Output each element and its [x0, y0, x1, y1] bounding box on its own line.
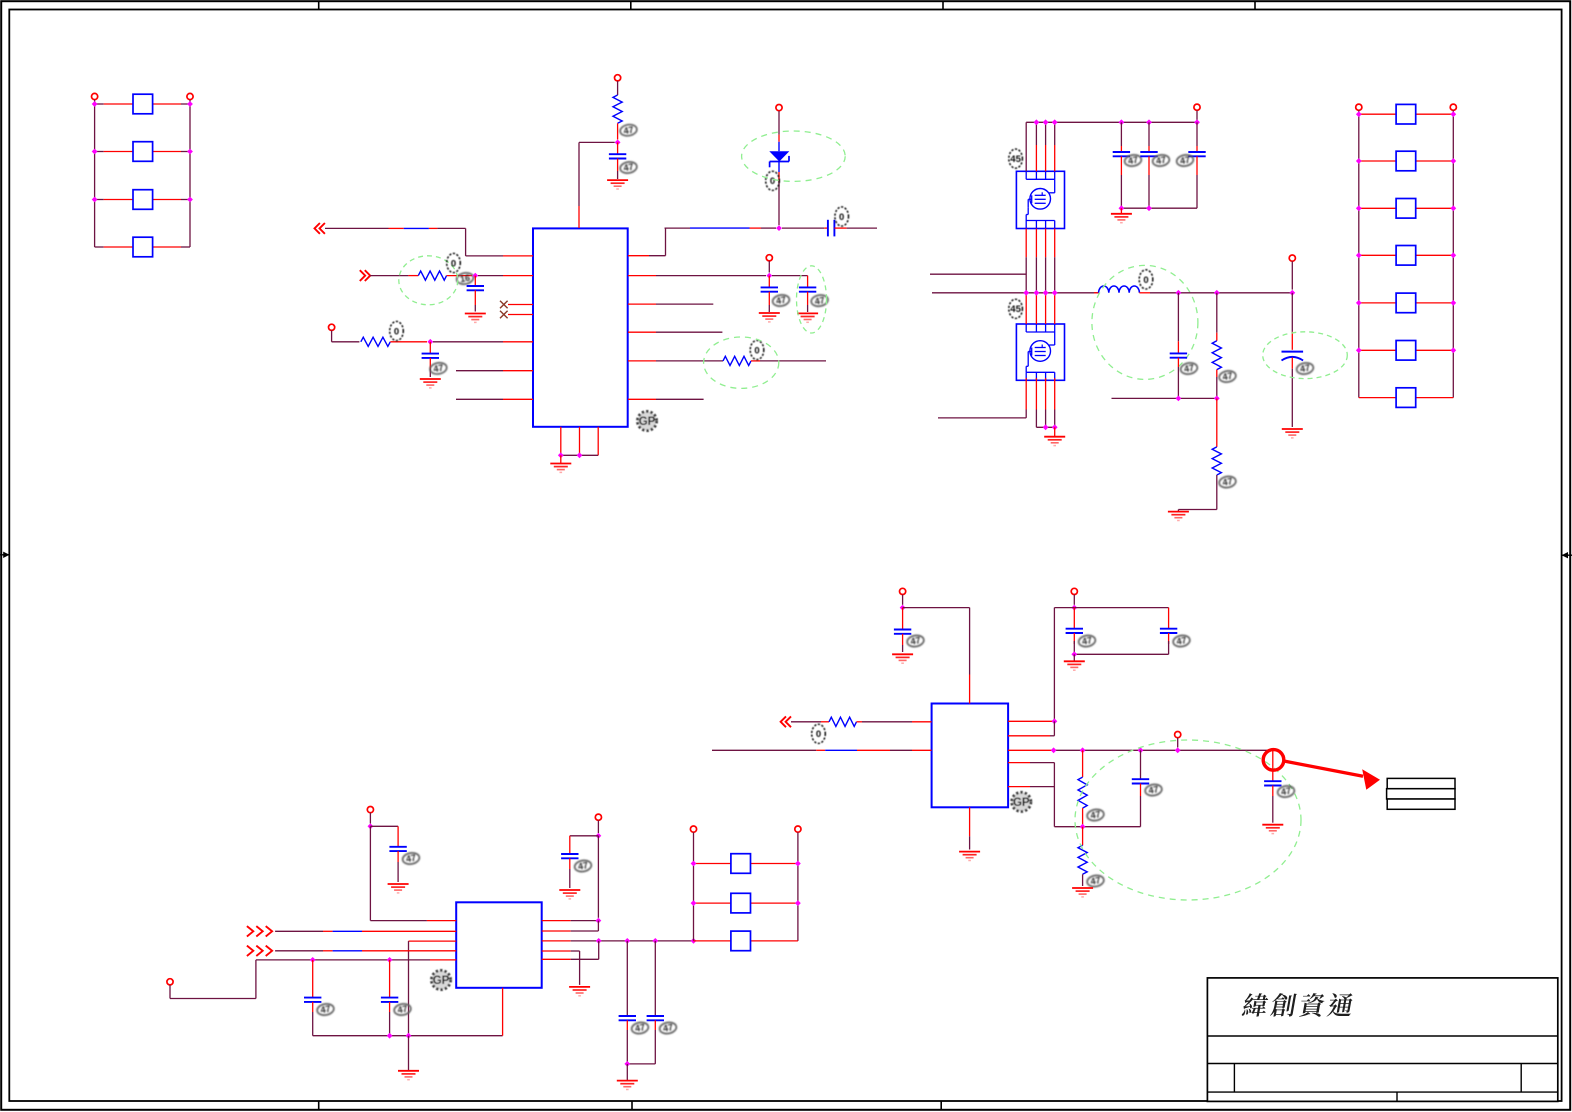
- title block frame: [1207, 978, 1557, 1102]
- junction gnd rail C7: [1119, 205, 1125, 211]
- inductor L1: [1094, 286, 1178, 293]
- ground C3: [420, 379, 441, 388]
- wire U3 pin R5: [1008, 786, 1054, 788]
- label D1 refdes: [766, 171, 780, 190]
- svg-text:GP: GP: [433, 975, 450, 987]
- wire R2 to U1: [478, 275, 533, 277]
- junction SW 3: [1043, 290, 1049, 296]
- junction out C11: [1289, 290, 1295, 296]
- wire U3 pin L2 long net: [712, 749, 932, 751]
- resistor RN3-2: [694, 893, 798, 913]
- wire U2 pin L4: [275, 950, 456, 952]
- label C11 value: [1296, 362, 1314, 376]
- resistor RN2-2: [1359, 151, 1454, 171]
- op-amp U3: [932, 704, 1009, 808]
- capacitor C9: [1188, 122, 1205, 208]
- wire U2 pin L5: [170, 960, 456, 999]
- resistor RN2-4: [1359, 246, 1454, 266]
- op-amp U2 regulator: [456, 902, 542, 988]
- resistor RN1-2: [95, 142, 190, 162]
- ground C12: [388, 884, 409, 893]
- annotation arrow to probe pads: [1283, 761, 1380, 790]
- svg-text:47: 47: [1176, 635, 1188, 647]
- wire U3 pin R2 loop: [1008, 721, 1054, 736]
- junction VIN C7: [1119, 119, 1125, 125]
- label C1 value: [619, 161, 637, 175]
- capacitor C10: [1170, 293, 1187, 399]
- junction U3 vcc2: [1071, 605, 1077, 611]
- no-connect pin X1: [500, 301, 533, 309]
- capacitor C14: [381, 960, 398, 1036]
- wire RN1 right rail: [189, 100, 191, 247]
- label C18 value: [906, 634, 924, 648]
- svg-text:0: 0: [839, 212, 844, 223]
- wire U1 right pin 4: [628, 331, 722, 333]
- junction U1 gnd 2: [577, 452, 583, 458]
- ground C19: [1064, 654, 1085, 670]
- resistor R2: [370, 271, 472, 280]
- svg-text:0: 0: [394, 326, 399, 337]
- wire vcc1 to U2 pin L1: [370, 826, 456, 920]
- junction U2 R1: [596, 918, 602, 924]
- junction R8 bottom: [1080, 824, 1086, 830]
- border zone tick bottom 1: [318, 1101, 320, 1110]
- junction R3 b: [624, 938, 630, 944]
- probe pads stack: [1387, 778, 1455, 809]
- svg-text:47: 47: [623, 162, 635, 174]
- svg-text:47: 47: [1183, 363, 1195, 375]
- wire gate drive in: [930, 273, 1026, 275]
- border zone tick bottom 2: [631, 1101, 633, 1110]
- label R2 value: [456, 272, 474, 286]
- wire U3 pin R4: [1008, 763, 1140, 827]
- label C3 value: [429, 362, 447, 376]
- label U2 GP stamp: [431, 970, 450, 989]
- border center arrow left: [0, 552, 10, 558]
- resistor RN3-3: [694, 931, 798, 951]
- capacitor C1: [609, 142, 626, 179]
- ground Q2: [1044, 427, 1065, 445]
- junction rail C10: [1176, 396, 1182, 402]
- svg-text:47: 47: [1280, 786, 1292, 798]
- terminal RN2-A: [1356, 104, 1362, 110]
- highlight ellipse L1: [1092, 265, 1198, 379]
- svg-text:47: 47: [1090, 875, 1102, 887]
- wire U1 left pin 6: [456, 370, 533, 372]
- ground C5: [759, 313, 780, 322]
- off-page arrow U2 IN2: [247, 946, 272, 956]
- terminal VCC U3a: [900, 588, 906, 604]
- resistor RN2-7: [1359, 388, 1454, 408]
- transistor Q2 (dual MOSFET block): [1016, 324, 1064, 380]
- terminal VCC R1: [615, 75, 621, 81]
- wire U2 bottom rail: [313, 988, 503, 1036]
- junction RN1 right row 3: [187, 197, 193, 203]
- off-page arrow U3 IN: [781, 716, 791, 727]
- terminal J3: [167, 979, 173, 985]
- wire U3 ground pin: [969, 807, 971, 849]
- svg-text:47: 47: [662, 1022, 674, 1034]
- wire RN2 right rail: [1452, 110, 1454, 397]
- junction C14 top: [387, 957, 393, 963]
- border zone tick top 2: [630, 1, 632, 9]
- border zone tick top 4: [1254, 1, 1256, 9]
- label U3 GP stamp: [1012, 792, 1031, 811]
- terminal out sense: [1175, 732, 1181, 748]
- label U1 GP stamp: [637, 411, 656, 430]
- resistor R6: [1178, 398, 1221, 509]
- junction VIN C8: [1146, 119, 1152, 125]
- ground C1: [607, 180, 628, 189]
- wire U2 pin R4: [542, 951, 580, 985]
- junction rail gnd: [406, 1033, 412, 1039]
- svg-text:47: 47: [775, 295, 787, 307]
- wire RN1 left rail: [94, 100, 96, 247]
- junction RN1 left row 1: [92, 101, 98, 107]
- wire IN1: [325, 228, 533, 256]
- capacitor C15: [561, 836, 598, 888]
- svg-text:47: 47: [1148, 784, 1160, 796]
- off-page arrow left IN2: [360, 270, 370, 281]
- terminal J1-B: [187, 93, 193, 99]
- wire U1 right pin 3: [628, 303, 713, 305]
- resistor R5: [1212, 293, 1221, 399]
- svg-text:45: 45: [1010, 154, 1021, 165]
- highlight ellipse R2: [399, 256, 458, 305]
- junction VIN C9: [1194, 119, 1200, 125]
- off-page arrow left IN1: [315, 223, 325, 234]
- terminal VCC U2b: [595, 814, 601, 833]
- junction RN1 left row 3: [92, 197, 98, 203]
- junction out a: [1051, 747, 1057, 753]
- svg-text:0: 0: [754, 345, 759, 356]
- resistor RN1-1: [95, 94, 190, 114]
- capacitor C8: [1140, 122, 1157, 208]
- ground R6: [1168, 510, 1189, 521]
- wire U1 ground pins: [561, 427, 598, 456]
- junction R3 a: [596, 938, 602, 944]
- junction SW 4: [1052, 290, 1058, 296]
- svg-text:47: 47: [1155, 155, 1167, 167]
- highlight ellipse R4: [704, 337, 779, 388]
- junction D1/bus: [776, 225, 782, 231]
- label Q1 refdes: [1009, 149, 1023, 168]
- label C14 value: [393, 1003, 411, 1017]
- wire gate drive in 2: [938, 417, 1026, 419]
- wire U2 pin R2 loop: [542, 921, 599, 931]
- junction RN1 left row 2: [92, 149, 98, 155]
- label C16 value: [631, 1021, 649, 1035]
- capacitor C12: [370, 826, 406, 882]
- wire RN3 right rail: [797, 832, 799, 941]
- terminal RN3-A: [690, 826, 696, 832]
- wire U2 pin R1: [542, 920, 599, 922]
- terminal RN2-B: [1450, 104, 1456, 110]
- ground C16: [617, 1064, 638, 1090]
- svg-text:47: 47: [397, 1004, 409, 1016]
- svg-text:0: 0: [451, 258, 456, 269]
- wire vcc2 down: [597, 836, 599, 918]
- highlight ellipse C11: [1263, 332, 1348, 379]
- label C20 value: [1172, 634, 1190, 648]
- junction Q2 src 4: [1052, 424, 1058, 430]
- junction U3 vcc1: [900, 605, 906, 611]
- junction RN2 left row 6: [1356, 347, 1362, 353]
- svg-text:47: 47: [1222, 476, 1234, 488]
- ground C6: [797, 313, 818, 322]
- title block company name: [1241, 993, 1354, 1017]
- label Q2 refdes: [1009, 299, 1023, 318]
- ground U1: [550, 455, 571, 472]
- junction C5: [766, 273, 772, 279]
- ground U3: [959, 852, 980, 861]
- wire Q1 drain pins to VIN bus: [1026, 122, 1055, 171]
- label C10 value: [1180, 362, 1198, 376]
- ground U2 rail: [398, 1036, 419, 1080]
- ground C22: [1262, 825, 1283, 834]
- label C6 value: [810, 294, 828, 308]
- terminal RN3-B: [795, 826, 801, 832]
- wire RN3 left rail: [693, 832, 695, 941]
- wire U3 pin R3 output net: [1008, 749, 1269, 751]
- wire cap rail: [1112, 397, 1217, 399]
- label C19 value: [1078, 634, 1096, 648]
- junction out d: [1175, 747, 1181, 753]
- label C13 value: [316, 1003, 334, 1017]
- junction R3 c: [652, 938, 658, 944]
- junction out c: [1138, 747, 1144, 753]
- svg-text:16: 16: [459, 273, 471, 285]
- resistor RN1-4: [95, 237, 190, 257]
- highlight ellipse C6: [797, 266, 827, 333]
- zener diode D1: [769, 105, 789, 226]
- capacitor C17: [627, 941, 664, 1064]
- wire SW to output: [1178, 292, 1292, 294]
- capacitor C7: [1113, 122, 1130, 208]
- capacitor C20: [1074, 608, 1177, 655]
- svg-text:47: 47: [634, 1022, 646, 1034]
- wire U1 right pin 5: [628, 398, 704, 400]
- ground C11: [1282, 429, 1303, 438]
- label C15 value: [574, 859, 592, 873]
- junction R3/C3: [427, 339, 433, 345]
- ground R9: [1072, 888, 1093, 897]
- svg-text:45: 45: [1010, 304, 1021, 315]
- label L1 refdes: [1139, 270, 1153, 289]
- capacitor C11 polarized: [1282, 293, 1304, 427]
- junction gnd rail C8: [1146, 205, 1152, 211]
- junction rail C14: [387, 1033, 393, 1039]
- junction out b: [1080, 747, 1086, 753]
- svg-text:47: 47: [1127, 155, 1139, 167]
- svg-text:47: 47: [1222, 371, 1234, 383]
- wire C7-C9 ground rail: [1121, 207, 1197, 209]
- terminal VOUT: [1289, 255, 1295, 290]
- highlight ellipse D1: [742, 131, 846, 181]
- resistor R3: [332, 331, 427, 347]
- resistor RN2-6: [1359, 341, 1454, 361]
- junction Q2 src 3: [1043, 424, 1049, 430]
- terminal J2: [329, 324, 335, 330]
- capacitor C19: [1066, 608, 1083, 655]
- resistor R8: [1078, 750, 1087, 826]
- resistor RN1-3: [95, 190, 190, 210]
- junction C19 bottom: [1071, 651, 1077, 657]
- capacitor C5: [761, 276, 778, 312]
- border zone tick top 3: [942, 1, 944, 9]
- wire U1 right pin 2: [628, 275, 766, 277]
- junction SW 1: [1023, 290, 1029, 296]
- svg-text:0: 0: [816, 729, 821, 740]
- terminal J1-A: [92, 93, 98, 99]
- junction R2/C2: [472, 273, 478, 279]
- junction rail R5: [1214, 396, 1220, 402]
- junction RN2 right row 4: [1450, 252, 1456, 258]
- svg-text:47: 47: [1299, 363, 1311, 375]
- junction SW 2: [1034, 290, 1040, 296]
- capacitor C3: [422, 342, 439, 377]
- label C9 value: [1176, 154, 1194, 168]
- ground C18: [892, 654, 913, 663]
- highlight ellipse U3 output: [1075, 740, 1301, 900]
- label R6 value: [1218, 475, 1236, 489]
- junction out R5: [1214, 290, 1220, 296]
- border center arrow right: [1562, 552, 1572, 558]
- border zone tick bottom 3: [940, 1101, 942, 1110]
- terminal VIN: [1194, 104, 1200, 122]
- junction U3 R1: [1052, 718, 1058, 724]
- svg-text:GP: GP: [639, 416, 656, 428]
- junction U1 gnd 1: [558, 452, 564, 458]
- border zone tick top 1: [318, 1, 320, 9]
- svg-text:0: 0: [770, 176, 775, 187]
- junction R1/C1: [615, 140, 621, 146]
- wire U2 pin L2: [275, 930, 456, 932]
- resistor R1: [613, 81, 622, 140]
- resistor R9: [1078, 827, 1087, 886]
- terminal VCC U3b: [1071, 588, 1077, 604]
- junction U2 vcc2: [596, 833, 602, 839]
- wire Q2 source pins: [1026, 378, 1055, 427]
- label R4 refdes: [750, 340, 764, 359]
- junction RN2 right row 2: [1450, 158, 1456, 164]
- op-amp U1 controller: [533, 228, 628, 426]
- capacitor C16: [619, 941, 636, 1064]
- capacitor C4 series: [782, 220, 877, 237]
- junction RN2 right row 3: [1450, 205, 1456, 211]
- wire U1 left pin 7: [456, 398, 533, 400]
- label R3 refdes: [390, 321, 404, 340]
- svg-text:47: 47: [814, 295, 826, 307]
- label C8 value: [1152, 154, 1170, 168]
- wire SW node bus: [932, 292, 1099, 294]
- wire U3 pin R1: [1008, 720, 1054, 722]
- junction VIN bus 4: [1052, 119, 1058, 125]
- resistor RN2-1: [1359, 104, 1454, 124]
- junction RN1 right row 1: [187, 101, 193, 107]
- label C17 value: [659, 1021, 677, 1035]
- transistor Q1 (dual MOSFET block): [1016, 171, 1064, 228]
- svg-text:47: 47: [910, 635, 922, 647]
- junction C16 bottom: [624, 1061, 630, 1067]
- label C21 value: [1144, 783, 1162, 797]
- junction RN2 left row 4: [1356, 252, 1362, 258]
- svg-text:47: 47: [1179, 155, 1191, 167]
- label R1 value: [619, 123, 637, 137]
- resistor RN2-5: [1359, 293, 1454, 313]
- junction RN2 right row 5: [1450, 300, 1456, 306]
- ground C2: [465, 314, 486, 323]
- label C7 value: [1124, 154, 1142, 168]
- terminal VCC C5: [766, 255, 772, 273]
- svg-text:47: 47: [433, 363, 445, 375]
- label R5 value: [1218, 370, 1236, 384]
- junction RN3 right row 1: [795, 861, 801, 867]
- wire vcc1 to U3 top: [903, 608, 970, 704]
- label R8 value: [1086, 808, 1104, 822]
- ground C15: [559, 890, 580, 899]
- capacitor C6: [772, 276, 816, 312]
- capacitor C13: [304, 960, 321, 1036]
- junction R3 d: [691, 938, 697, 944]
- junction RN2 left row 1: [1356, 111, 1362, 117]
- junction RN1 right row 2: [187, 149, 193, 155]
- label C4 value: [835, 207, 849, 226]
- resistor R7: [791, 717, 932, 726]
- wire U1 VCC top pin: [579, 142, 615, 228]
- junction RN2 left row 3: [1356, 205, 1362, 211]
- no-connect pin X2: [500, 311, 533, 319]
- junction RN2 left row 2: [1356, 158, 1362, 164]
- capacitor C22: [1264, 750, 1281, 822]
- svg-text:GP: GP: [1013, 797, 1030, 809]
- label C5 value: [772, 294, 790, 308]
- ground U2 R4: [569, 987, 590, 996]
- wire Q1 source to Q2 drain: [1026, 229, 1055, 325]
- capacitor C18: [894, 608, 911, 652]
- ground C7 rail: [1111, 208, 1132, 223]
- label R7 refdes: [812, 724, 826, 743]
- svg-text:47: 47: [405, 853, 417, 865]
- wire U2 pin R3 output: [542, 940, 694, 942]
- resistor R4: [628, 356, 826, 365]
- svg-text:47: 47: [577, 860, 589, 872]
- label R2 refdes: [447, 253, 461, 272]
- capacitor C21: [1132, 750, 1149, 826]
- junction RN2 right row 6: [1450, 347, 1456, 353]
- wire vcc2 rail: [1054, 608, 1168, 722]
- svg-text:47: 47: [1081, 635, 1093, 647]
- wire U2 pin R5 loop: [542, 941, 599, 959]
- wire VIN bus top: [1026, 121, 1197, 123]
- svg-text:47: 47: [623, 125, 635, 137]
- junction C13 top: [310, 957, 316, 963]
- junction RN3 left row 1: [691, 861, 697, 867]
- capacitor C2: [467, 276, 484, 312]
- label R9 value: [1086, 874, 1104, 888]
- wire U2 pin L3: [409, 941, 457, 1036]
- wire U1 right pin 1 to bus: [628, 228, 776, 256]
- junction out C10: [1176, 290, 1182, 296]
- wire RN2 left rail: [1358, 110, 1360, 397]
- label C22 value: [1277, 785, 1295, 799]
- label C12 value: [402, 852, 420, 866]
- junction RN2 right row 1: [1450, 111, 1456, 117]
- svg-text:47: 47: [320, 1004, 332, 1016]
- junction VIN bus 3: [1043, 119, 1049, 125]
- junction RN3 left row 2: [691, 900, 697, 906]
- svg-text:47: 47: [1090, 809, 1102, 821]
